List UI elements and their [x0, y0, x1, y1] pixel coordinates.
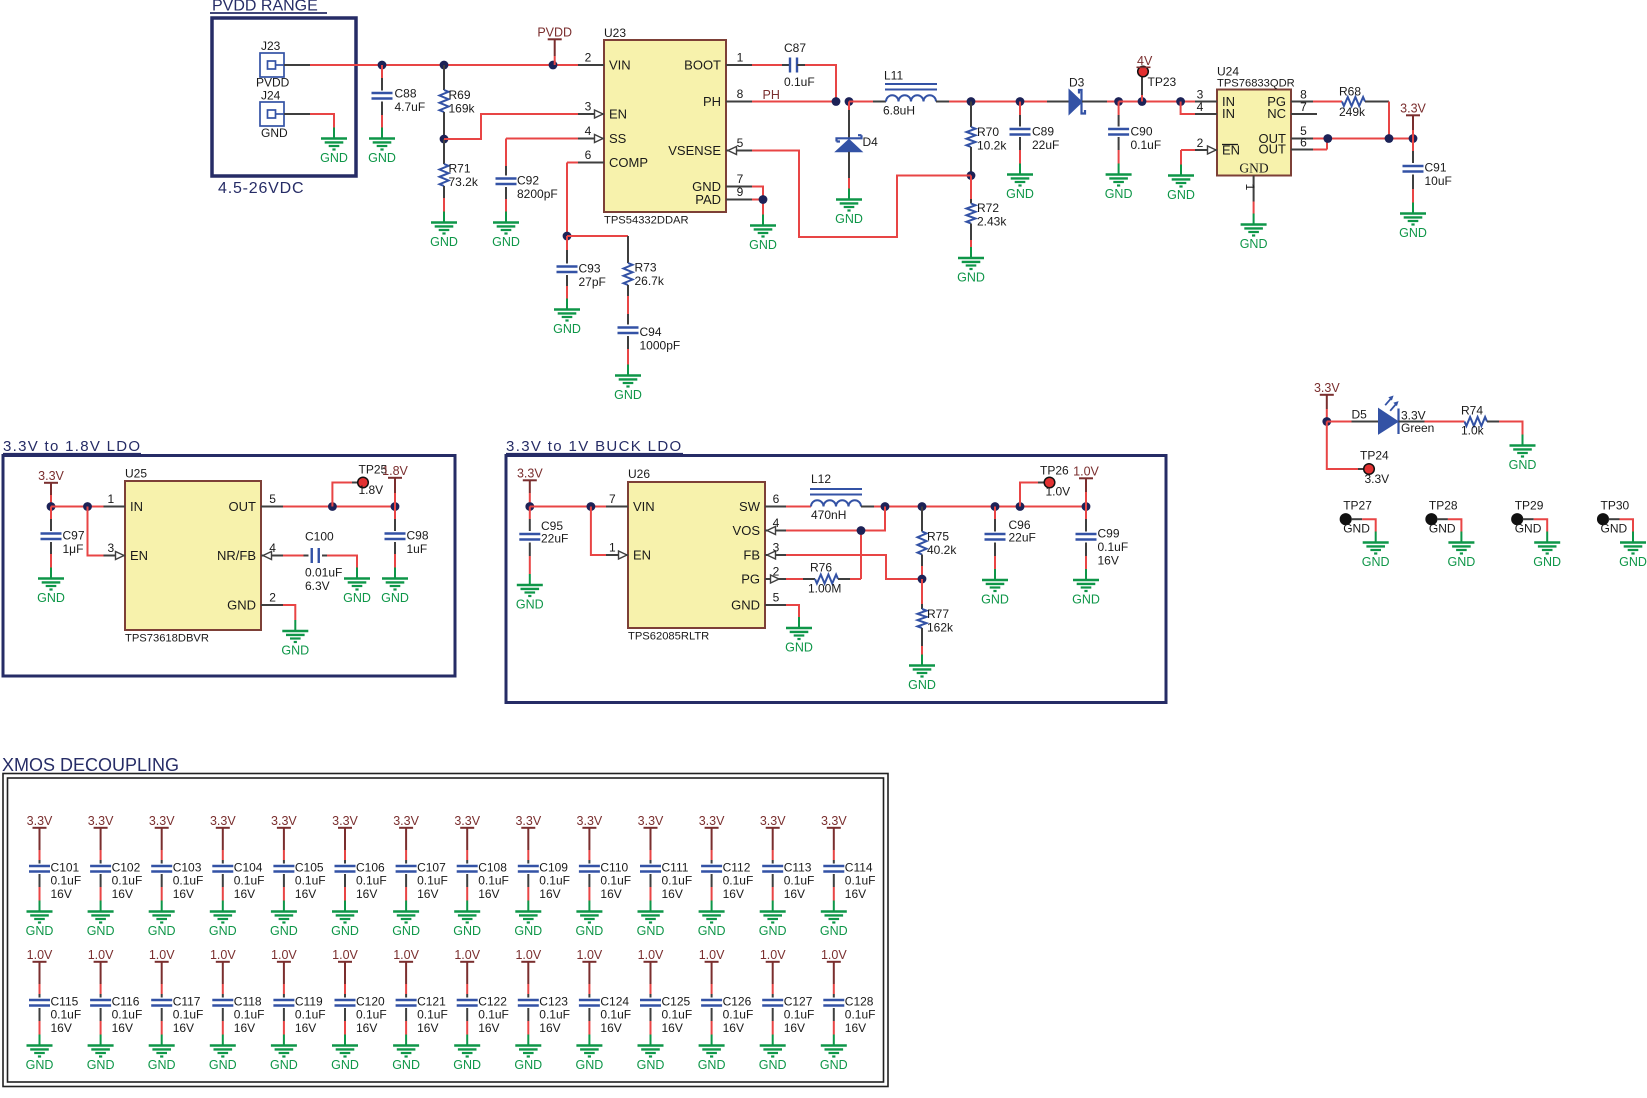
- ground for C100: [343, 568, 371, 606]
- svg-text:1: 1: [107, 492, 114, 506]
- svg-text:GND: GND: [785, 641, 813, 655]
- svg-text:C94: C94: [640, 325, 662, 339]
- svg-text:GND: GND: [281, 644, 309, 658]
- svg-text:R75: R75: [927, 530, 949, 544]
- svg-text:5: 5: [737, 136, 744, 150]
- wire 3.3V to VIN: [530, 506, 606, 508]
- ground for C112: [698, 901, 726, 939]
- pin 5 OUT: [1291, 124, 1313, 139]
- svg-text:16V: 16V: [356, 887, 377, 901]
- svg-text:GND: GND: [1619, 555, 1647, 569]
- capacitor C116 0.1uF 16V: [90, 995, 142, 1036]
- power flag 3.3V C105: [271, 814, 297, 864]
- svg-text:C88: C88: [395, 87, 417, 101]
- test point TP27 GND: [1340, 499, 1375, 536]
- wire J24 to ground: [284, 114, 334, 128]
- svg-text:GND: GND: [1343, 522, 1370, 536]
- svg-text:L11: L11: [884, 69, 903, 83]
- svg-text:16V: 16V: [356, 1021, 377, 1035]
- capacitor C127 0.1uF 16V: [762, 995, 814, 1036]
- svg-text:16V: 16V: [845, 887, 866, 901]
- svg-text:1: 1: [737, 51, 744, 65]
- svg-text:R70: R70: [977, 125, 999, 139]
- wire VSENSE feedback: [752, 151, 971, 238]
- ground for TP30: [1619, 532, 1647, 570]
- ground for C118: [209, 1035, 237, 1073]
- svg-text:GND: GND: [1533, 555, 1561, 569]
- ground for C105: [270, 901, 298, 939]
- svg-text:6.3V: 6.3V: [305, 579, 330, 593]
- svg-text:26.7k: 26.7k: [635, 274, 665, 288]
- node junction C87/PH: [832, 97, 841, 106]
- svg-text:1.8V: 1.8V: [382, 464, 408, 478]
- ground for J24: [320, 128, 348, 166]
- svg-text:10uF: 10uF: [1425, 174, 1452, 188]
- ground for C88: [368, 128, 396, 166]
- svg-text:3.3V: 3.3V: [332, 814, 358, 828]
- svg-text:GND: GND: [453, 1058, 481, 1072]
- pin 4 IN: [1195, 100, 1217, 114]
- ground for C120: [331, 1035, 359, 1073]
- node junction TP26: [1016, 502, 1025, 511]
- power flag 3.3V C102: [88, 814, 114, 864]
- capacitor C94 1000pF: [618, 325, 681, 365]
- svg-text:GND: GND: [759, 924, 787, 938]
- LED D5 Green: [1327, 396, 1435, 436]
- capacitor C103 0.1uF 16V: [151, 861, 203, 902]
- ground for TP27: [1362, 532, 1390, 570]
- svg-text:16V: 16V: [600, 1021, 621, 1035]
- svg-text:GND: GND: [637, 1058, 665, 1072]
- svg-text:TP28: TP28: [1429, 499, 1458, 513]
- test point TP24 3.3V: [1327, 422, 1389, 487]
- resistor R75 40.2k: [918, 507, 958, 580]
- wire EN U25: [88, 507, 104, 556]
- svg-text:4: 4: [585, 124, 592, 138]
- pin 3 EN U25: [104, 541, 126, 560]
- svg-text:R73: R73: [635, 261, 657, 275]
- capacitor C95 22uF: [519, 507, 568, 575]
- wire COMP net: [567, 163, 578, 237]
- svg-text:16V: 16V: [723, 887, 744, 901]
- svg-text:GND: GND: [453, 924, 481, 938]
- svg-text:0.1uF: 0.1uF: [723, 1008, 754, 1022]
- node junction R75/R77/FB: [918, 575, 927, 584]
- svg-text:GND: GND: [981, 593, 1009, 607]
- svg-text:16V: 16V: [723, 1021, 744, 1035]
- test point TP26 1.0V: [1020, 464, 1070, 507]
- svg-text:C115: C115: [51, 995, 79, 1009]
- wire FB net: [786, 555, 922, 579]
- svg-text:0.01uF: 0.01uF: [305, 566, 342, 580]
- power flag PVDD: [537, 26, 572, 66]
- node junction R70: [967, 97, 976, 106]
- inductor L12 470nH: [786, 472, 874, 522]
- svg-text:0.1uF: 0.1uF: [112, 1008, 143, 1022]
- power flag 3.3V C112: [699, 814, 725, 864]
- wire C90 to U24: [1119, 101, 1195, 103]
- svg-text:U25: U25: [125, 467, 147, 481]
- svg-text:470nH: 470nH: [811, 508, 846, 522]
- svg-text:R71: R71: [449, 162, 471, 176]
- connector J23: [256, 39, 290, 90]
- pin 2 PG U26: [765, 565, 786, 584]
- svg-text:GND: GND: [261, 126, 288, 140]
- svg-text:10.2k: 10.2k: [977, 139, 1007, 153]
- node junction 1.8V/C98: [391, 502, 400, 511]
- svg-text:C118: C118: [234, 995, 262, 1009]
- ground for U25 GND: [281, 620, 309, 658]
- svg-text:TP27: TP27: [1343, 499, 1372, 513]
- svg-text:C127: C127: [784, 995, 813, 1009]
- ground for C116: [87, 1035, 115, 1073]
- capacitor C98 1uF: [385, 507, 429, 568]
- svg-text:3.3V: 3.3V: [699, 814, 725, 828]
- svg-text:GND: GND: [576, 1058, 604, 1072]
- svg-text:3.3V: 3.3V: [760, 814, 786, 828]
- svg-text:7: 7: [1300, 100, 1307, 114]
- capacitor C122 0.1uF 16V: [457, 995, 509, 1036]
- svg-text:C105: C105: [295, 861, 324, 875]
- svg-text:C126: C126: [723, 995, 752, 1009]
- svg-text:GND: GND: [1399, 226, 1427, 240]
- svg-text:C114: C114: [845, 861, 873, 875]
- svg-text:16V: 16V: [51, 887, 72, 901]
- wire EN net: [444, 114, 578, 139]
- svg-text:C121: C121: [417, 995, 446, 1009]
- svg-text:C116: C116: [112, 995, 140, 1009]
- svg-text:0.1uF: 0.1uF: [478, 1008, 509, 1022]
- svg-text:0.1uF: 0.1uF: [51, 1008, 82, 1022]
- svg-text:3.3V: 3.3V: [454, 814, 480, 828]
- svg-text:8200pF: 8200pF: [517, 187, 558, 201]
- power flag 1.0V: [1073, 465, 1099, 507]
- node junction R69/R71/EN: [440, 135, 449, 144]
- svg-text:C111: C111: [662, 861, 689, 875]
- node junction D4: [845, 97, 854, 106]
- svg-text:GND: GND: [820, 924, 848, 938]
- pin 5 OUT U25: [261, 492, 283, 507]
- svg-text:16V: 16V: [662, 1021, 683, 1035]
- svg-text:16V: 16V: [784, 887, 805, 901]
- power flag 1.0V C124: [577, 948, 603, 998]
- svg-text:16V: 16V: [417, 1021, 438, 1035]
- svg-text:C108: C108: [478, 861, 507, 875]
- svg-text:1.0V: 1.0V: [271, 948, 297, 962]
- svg-text:GND: GND: [1429, 522, 1456, 536]
- svg-text:C106: C106: [356, 861, 385, 875]
- wire J23 to VIN rail: [284, 64, 578, 66]
- svg-text:TPS62085RLTR: TPS62085RLTR: [628, 631, 709, 643]
- svg-text:6: 6: [585, 148, 592, 162]
- svg-text:C97: C97: [63, 529, 85, 543]
- node junction C88: [378, 61, 387, 70]
- svg-text:R72: R72: [977, 201, 999, 215]
- pin 7 VIN U26: [606, 492, 628, 507]
- svg-text:GND: GND: [26, 1058, 54, 1072]
- power flag 3.3V C104: [210, 814, 236, 864]
- svg-text:3.3V: 3.3V: [517, 467, 543, 481]
- svg-text:0.1uF: 0.1uF: [662, 874, 693, 888]
- ground for C128: [820, 1035, 848, 1073]
- pin 1 IN U25: [104, 492, 126, 507]
- ground for C90: [1105, 164, 1133, 202]
- capacitor C124 0.1uF 16V: [579, 995, 631, 1036]
- svg-text:7: 7: [737, 172, 744, 186]
- svg-text:VIN: VIN: [609, 58, 631, 73]
- power flag 3.3V C106: [332, 814, 358, 864]
- section title PVDD RANGE: [210, 0, 327, 15]
- svg-text:3.3V: 3.3V: [1314, 381, 1340, 395]
- svg-text:GND: GND: [614, 388, 642, 402]
- ground for C109: [514, 901, 542, 939]
- svg-text:GND: GND: [392, 1058, 420, 1072]
- pin 4 VOS U26: [765, 516, 786, 535]
- capacitor C125 0.1uF 16V: [640, 995, 692, 1036]
- resistor R74 1.0k: [1425, 404, 1523, 438]
- wire EN U26: [591, 507, 606, 556]
- svg-text:GND: GND: [381, 591, 409, 605]
- node junction VOS/R76: [857, 526, 866, 535]
- power flag 3.3V LED: [1314, 381, 1340, 422]
- capacitor C106 0.1uF 16V: [335, 861, 387, 902]
- svg-text:9: 9: [737, 185, 744, 199]
- IC U24 TPS76833QDR: [1217, 65, 1295, 176]
- resistor R71 73.2k: [440, 139, 479, 212]
- ground for R77: [908, 655, 936, 693]
- ground for C124: [576, 1035, 604, 1073]
- svg-text:C109: C109: [539, 861, 568, 875]
- svg-text:TPS54332DDAR: TPS54332DDAR: [604, 215, 689, 227]
- svg-text:TP30: TP30: [1601, 499, 1630, 513]
- svg-text:PAD: PAD: [695, 192, 721, 207]
- ground for C95: [516, 574, 544, 612]
- capacitor C115 0.1uF 16V: [29, 995, 81, 1036]
- svg-text:BOOT: BOOT: [684, 58, 721, 73]
- capacitor C87 0.1uF: [752, 41, 836, 102]
- svg-text:3.3V: 3.3V: [515, 814, 541, 828]
- svg-text:3.3V: 3.3V: [1400, 102, 1426, 116]
- pin 2 GND U25: [261, 591, 283, 606]
- ground for C101: [26, 901, 54, 939]
- svg-text:16V: 16V: [478, 1021, 499, 1035]
- svg-text:16V: 16V: [234, 1021, 255, 1035]
- svg-text:0.1uF: 0.1uF: [173, 874, 204, 888]
- capacitor C91 10uF: [1403, 139, 1452, 203]
- svg-text:0.1uF: 0.1uF: [1131, 138, 1162, 152]
- svg-text:0.1uF: 0.1uF: [600, 1008, 631, 1022]
- svg-text:16V: 16V: [662, 887, 683, 901]
- ground for U24 EN: [1167, 165, 1195, 203]
- power flag 3.3V C111: [638, 814, 664, 864]
- resistor R69 169k: [440, 65, 476, 139]
- svg-text:IN: IN: [130, 499, 143, 514]
- ground for U23 PAD: [749, 215, 777, 253]
- svg-text:2: 2: [1197, 136, 1204, 150]
- wire SW rail: [874, 506, 1086, 508]
- pin 1 EN U26: [606, 541, 628, 560]
- power flag 1.0V C118: [210, 948, 236, 998]
- IC U23 TPS54332DDAR: [604, 26, 726, 227]
- svg-text:C91: C91: [1425, 161, 1447, 175]
- power flag 3.3V C113: [760, 814, 786, 864]
- svg-text:GND: GND: [516, 598, 544, 612]
- capacitor C108 0.1uF 16V: [457, 861, 509, 902]
- svg-text:R74: R74: [1461, 404, 1483, 418]
- svg-text:C101: C101: [51, 861, 80, 875]
- pin 3 FB U26: [765, 541, 786, 560]
- capacitor C109 0.1uF 16V: [518, 861, 570, 902]
- svg-text:1.0V: 1.0V: [210, 948, 236, 962]
- connector J24: [260, 89, 288, 141]
- ground for C114: [820, 901, 848, 939]
- ground for C119: [270, 1035, 298, 1073]
- power flag 1.0V C116: [88, 948, 114, 998]
- svg-text:R76: R76: [810, 561, 832, 575]
- svg-text:NR/FB: NR/FB: [217, 548, 256, 563]
- svg-text:C110: C110: [600, 861, 628, 875]
- node junction COMP/C93/R73: [563, 232, 572, 241]
- svg-text:2: 2: [585, 51, 592, 65]
- capacitor C99 0.1uF 16V: [1076, 507, 1129, 570]
- svg-text:0.1uF: 0.1uF: [539, 874, 570, 888]
- ground for R74: [1509, 435, 1537, 473]
- svg-text:GND: GND: [759, 1058, 787, 1072]
- svg-text:EN: EN: [130, 548, 148, 563]
- svg-text:TP23: TP23: [1148, 75, 1177, 89]
- svg-text:3.3V: 3.3V: [821, 814, 847, 828]
- svg-text:2: 2: [773, 565, 780, 579]
- svg-text:16V: 16V: [784, 1021, 805, 1035]
- svg-text:0.1uF: 0.1uF: [356, 1008, 387, 1022]
- ground for U24 GND: [1240, 214, 1268, 252]
- svg-text:7: 7: [609, 492, 616, 506]
- capacitor C107 0.1uF 16V: [396, 861, 448, 902]
- svg-text:GND: GND: [331, 1058, 359, 1072]
- capacitor C121 0.1uF 16V: [396, 995, 448, 1036]
- svg-text:1.00M: 1.00M: [808, 582, 841, 596]
- capacitor C117 0.1uF 16V: [151, 995, 203, 1036]
- svg-text:J24: J24: [261, 89, 281, 103]
- capacitor C120 0.1uF 16V: [335, 995, 387, 1036]
- svg-text:GND: GND: [698, 924, 726, 938]
- svg-text:GND: GND: [1509, 458, 1537, 472]
- svg-text:2: 2: [269, 591, 276, 605]
- ground for R71: [430, 212, 458, 250]
- svg-text:COMP: COMP: [609, 155, 648, 170]
- svg-text:0.1uF: 0.1uF: [417, 1008, 448, 1022]
- power flag 1.0V C126: [699, 948, 725, 998]
- svg-text:4.5-26VDC: 4.5-26VDC: [218, 180, 304, 197]
- svg-text:OUT: OUT: [229, 499, 257, 514]
- section box XMOS inner: [8, 778, 884, 1082]
- svg-text:GND: GND: [37, 591, 65, 605]
- wire PH to L11: [849, 101, 873, 103]
- svg-text:4.7uF: 4.7uF: [395, 100, 426, 114]
- svg-text:GND: GND: [26, 924, 54, 938]
- svg-text:1.0V: 1.0V: [27, 948, 53, 962]
- svg-text:249k: 249k: [1339, 105, 1366, 119]
- svg-text:D5: D5: [1352, 408, 1368, 422]
- node junction R70/R72/VSENSE: [967, 171, 976, 180]
- svg-text:SS: SS: [609, 131, 627, 146]
- test point TP28 GND: [1426, 499, 1461, 536]
- svg-text:16V: 16V: [539, 887, 560, 901]
- ground for C107: [392, 901, 420, 939]
- power flag 1.0V C123: [515, 948, 541, 998]
- svg-text:0.1uF: 0.1uF: [662, 1008, 693, 1022]
- ground for C92: [492, 212, 520, 250]
- svg-text:16V: 16V: [295, 1021, 316, 1035]
- ground for C110: [576, 901, 604, 939]
- capacitor C101 0.1uF 16V: [29, 861, 81, 902]
- svg-text:0.1uF: 0.1uF: [234, 1008, 265, 1022]
- ground for C121: [392, 1035, 420, 1073]
- pin 1 BOOT: [726, 51, 752, 66]
- svg-text:0.1uF: 0.1uF: [295, 1008, 326, 1022]
- power flag 3.3V C110: [577, 814, 603, 864]
- capacitor C113 0.1uF 16V: [762, 861, 814, 902]
- wire 3.3V to IN: [51, 506, 104, 508]
- section title 3.3V to 1V BUCK LDO: [506, 438, 683, 455]
- pin 4 SS: [578, 124, 604, 143]
- svg-text:3.3V: 3.3V: [38, 469, 64, 483]
- svg-text:GND: GND: [553, 322, 581, 336]
- ground for C97: [37, 568, 65, 606]
- svg-text:D4: D4: [863, 135, 879, 149]
- ground for C113: [759, 901, 787, 939]
- inductor L11 6.8uH: [873, 69, 949, 118]
- svg-text:U24: U24: [1217, 65, 1239, 79]
- svg-text:162k: 162k: [927, 621, 954, 635]
- svg-text:GND: GND: [430, 235, 458, 249]
- svg-text:3.3V: 3.3V: [638, 814, 664, 828]
- svg-text:3.3V: 3.3V: [1365, 472, 1390, 486]
- svg-text:3.3V: 3.3V: [27, 814, 53, 828]
- svg-text:1.0V: 1.0V: [1046, 485, 1071, 499]
- node junction D5/TP24: [1322, 417, 1331, 426]
- svg-text:1.0V: 1.0V: [577, 948, 603, 962]
- node junction EN branch: [83, 502, 92, 511]
- capacitor C114 0.1uF 16V: [823, 861, 875, 902]
- svg-text:1uF: 1uF: [407, 542, 428, 556]
- test point TP30 GND: [1598, 499, 1633, 536]
- capacitor C118 0.1uF 16V: [212, 995, 264, 1036]
- svg-text:3: 3: [107, 541, 114, 555]
- svg-text:R77: R77: [927, 607, 949, 621]
- svg-text:C90: C90: [1131, 125, 1153, 139]
- svg-text:0.1uF: 0.1uF: [845, 1008, 876, 1022]
- svg-text:3: 3: [773, 541, 780, 555]
- node junction 3.3V/C95: [525, 502, 534, 511]
- svg-text:1000pF: 1000pF: [640, 339, 681, 353]
- node junction TP25: [328, 502, 337, 511]
- pin 8 PG: [1291, 88, 1313, 102]
- svg-text:FB: FB: [743, 548, 760, 563]
- svg-text:C122: C122: [478, 995, 507, 1009]
- svg-text:1.0V: 1.0V: [454, 948, 480, 962]
- svg-text:EN: EN: [609, 107, 627, 122]
- node junction OUT/R68: [1385, 134, 1394, 143]
- svg-text:GND: GND: [227, 598, 256, 613]
- capacitor C102 0.1uF 16V: [90, 861, 142, 902]
- ground for C99: [1072, 569, 1100, 607]
- zener diode D4: [836, 102, 879, 189]
- svg-text:C87: C87: [784, 41, 806, 55]
- svg-text:C89: C89: [1032, 125, 1054, 139]
- svg-text:0.1uF: 0.1uF: [784, 874, 815, 888]
- svg-text:NC: NC: [1267, 106, 1286, 121]
